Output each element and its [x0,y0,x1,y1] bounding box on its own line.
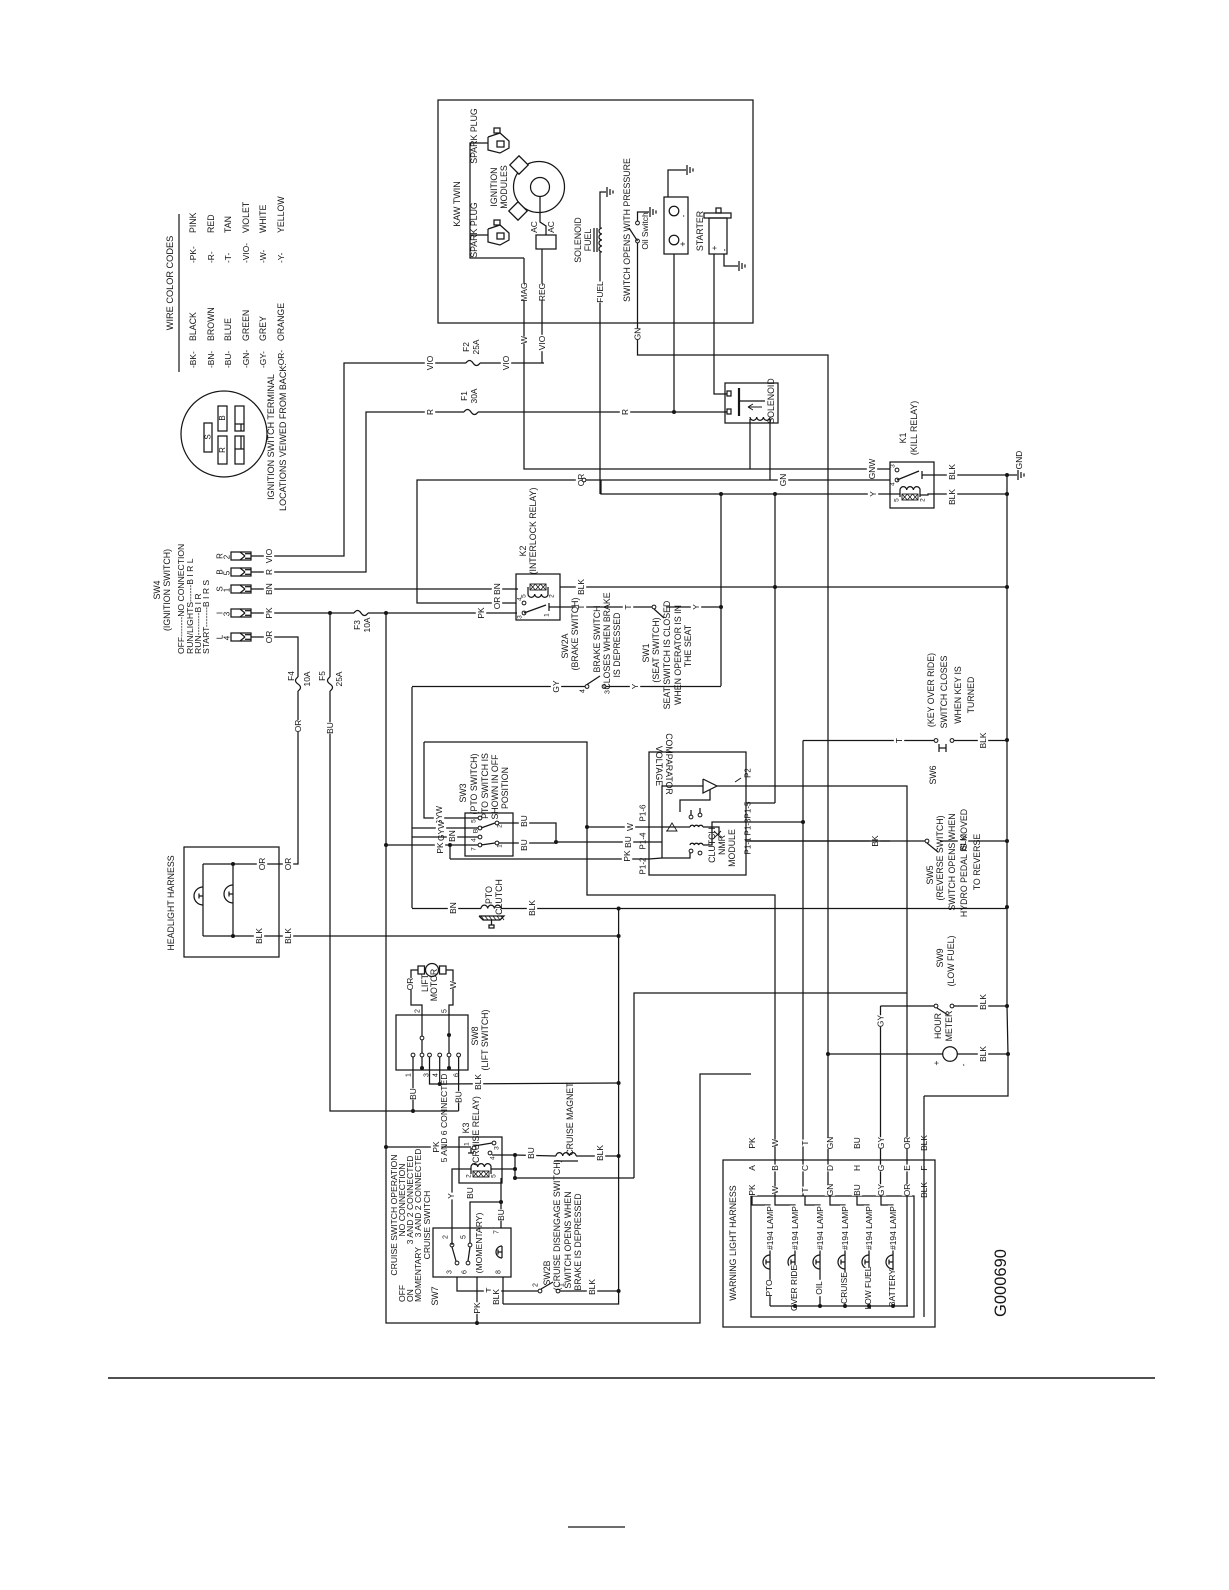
svg-text:P1-3: P1-3 [744,818,753,835]
switch SW6 key over ride [828,740,934,742]
wire flywheel to regulator [540,197,546,235]
wire lift motor W side [446,970,453,1015]
ignition module bracket [470,143,524,258]
svg-text:RED: RED [206,214,216,233]
svg-text:#194 LAMP: #194 LAMP [888,1206,898,1250]
svg-text:H: H [852,1165,862,1171]
svg-text:VOLTAGE: VOLTAGE [654,746,664,786]
svg-text:(CRUISE DISENGAGE SWITCH): (CRUISE DISENGAGE SWITCH) [552,1159,562,1290]
ground GND main [1005,473,1009,477]
starter solenoid box [725,383,778,423]
cruise magnet [556,1153,576,1156]
svg-text:1: 1 [223,587,232,592]
svg-text:K3: K3 [461,1123,471,1134]
wire P1-1 out to SW5 [746,840,890,842]
svg-text:B: B [770,1165,780,1171]
svg-text:3: 3 [890,464,897,468]
junction GN / hour meter feed [826,1052,830,1056]
svg-text:10A: 10A [302,671,312,686]
svg-text:T: T [623,604,633,609]
switch SW1 seat switch [652,605,656,609]
SW4 terminal I3 connector [231,609,251,617]
module internal diode [666,823,677,831]
wire K1 switch out BLK [927,474,1007,476]
terminal blade I [235,436,244,464]
svg-text:PK: PK [431,1141,441,1153]
svg-text:Y: Y [691,604,701,610]
svg-text:-GN-: -GN- [241,350,251,368]
svg-text:BLUE: BLUE [223,318,233,341]
svg-text:OR: OR [264,631,274,644]
wire SW8 pin3 [430,1057,440,1084]
svg-text:PINK: PINK [188,212,198,233]
SW4 terminal L4 connector [231,633,251,641]
svg-text:CLOSES WHEN BRAKE: CLOSES WHEN BRAKE [602,592,612,689]
wire BN net: SW4-S to K2 coil pin 5 [251,588,518,590]
svg-text:2: 2 [920,498,927,502]
wire GN: oil switch down to warning harness D [638,243,829,1196]
svg-text:BU: BU [496,1209,506,1221]
svg-text:P2: P2 [744,768,753,778]
svg-text:OR: OR [902,1137,912,1150]
svg-text:+: + [931,1060,941,1065]
svg-text:WIRE COLOR CODES: WIRE COLOR CODES [165,236,175,330]
wire GY/GYW/BN riser [411,687,413,908]
svg-text:R: R [425,409,435,415]
svg-text:FUEL: FUEL [595,281,605,303]
svg-text:SOLENOID: SOLENOID [766,378,776,423]
wire REG VIO: regulator down to F2 line [541,249,543,363]
warning harness wire G GY [876,1137,886,1149]
svg-text:10A: 10A [362,617,372,632]
svg-text:CRUISE: CRUISE [839,1272,849,1304]
wire lift motor OR side [411,970,422,1015]
svg-text:MODULES: MODULES [499,165,509,209]
svg-text:OR: OR [283,858,293,871]
spark plug 1 [488,128,509,153]
svg-text:BN: BN [447,830,457,842]
wire SW7 pin2 from K3 Y [451,1243,453,1245]
svg-text:-R-: -R- [206,251,216,263]
svg-text:BLK: BLK [576,579,586,595]
svg-text:S: S [204,434,213,439]
svg-text:-: - [958,1063,968,1066]
svg-text:5: 5 [491,1174,498,1178]
svg-text:BN: BN [448,902,458,914]
svg-text:SW2B: SW2B [542,1260,552,1285]
engine KAW TWIN box [438,100,753,323]
svg-text:GY: GY [876,1015,886,1028]
wire Y line: fuel line corner to K1 coil [601,480,890,494]
svg-text:PK: PK [264,607,274,619]
svg-text:F5: F5 [317,671,327,681]
svg-text:GN: GN [778,474,788,487]
solenoid plunger [738,388,740,416]
svg-text:GY: GY [876,1184,886,1197]
oil switch ground [638,212,650,221]
svg-text:GYW: GYW [436,821,446,841]
svg-text:METER: METER [944,1011,954,1042]
terminal blade B [218,406,227,431]
K1 switch contacts [895,468,899,472]
svg-text:AC: AC [529,221,539,233]
warning harness wire H BU [852,1137,862,1149]
junction PK bus / SW3 feed [384,843,388,847]
svg-text:REG: REG [537,283,547,301]
svg-text:3: 3 [447,1270,454,1274]
svg-text:SW1: SW1 [641,643,651,662]
svg-text:W: W [770,1186,780,1194]
svg-text:BLK: BLK [527,900,537,916]
warning lamp BATTERY [892,1269,894,1306]
wire solenoid coil 2 to GN line [769,419,771,480]
wire K1 coil out BLK [920,494,1007,495]
wire VIO net: SW4-R to F2 to regulator [251,363,544,556]
wire K3 coil pin2 Y to SW7 [452,1169,471,1243]
svg-text:GNW: GNW [867,459,877,480]
svg-text:BU: BU [454,1091,464,1103]
wire PK into K3 [386,1146,471,1148]
comparator output wire P2 [717,785,746,787]
wire solenoid coil 1 to GNW line [749,419,751,469]
svg-text:C: C [800,1165,810,1171]
svg-text:BU: BU [526,1147,536,1159]
svg-text:G: G [876,1165,886,1172]
svg-text:F2: F2 [461,342,471,352]
svg-text:-T-: -T- [223,253,233,263]
wire GYW riser to SW3 pin5 [424,742,478,818]
svg-text:BRAKE SWITCH: BRAKE SWITCH [592,606,602,673]
warning lamp LOW FUEL [868,1269,870,1306]
wire riser to P2 line [634,993,907,1178]
svg-text:3: 3 [223,611,232,616]
svg-text:OR: OR [405,978,415,991]
svg-text:30A: 30A [469,388,479,403]
warning harness wire D GN [825,1137,835,1149]
junction BLK / P1-5 drop [773,585,777,589]
svg-text:BLK: BLK [978,732,988,748]
svg-text:-: - [678,214,688,217]
svg-text:(IGNITION SWITCH): (IGNITION SWITCH) [162,549,172,631]
wire GYW into SW3 pin B [412,827,478,829]
wire MAG W: engine to K1 pin 3 [524,258,890,469]
svg-text:3: 3 [517,615,524,619]
warning lamp OIL [819,1269,821,1306]
svg-text:-: - [719,248,729,251]
junction Y / seat-brake net [719,492,723,496]
comparator triangle [703,779,717,793]
wire PK into SW3 pin 7 [386,844,478,846]
svg-text:CRUISE SWITCH: CRUISE SWITCH [422,1191,432,1260]
svg-text:CLUTCH: CLUTCH [494,879,504,915]
svg-text:K2: K2 [518,546,528,557]
junction PK / PK bus branch [384,611,388,615]
junction W line / P1-6 [585,825,589,829]
svg-text:#194 LAMP: #194 LAMP [790,1206,800,1250]
svg-text:F3: F3 [352,620,362,630]
svg-text:7: 7 [494,1230,501,1234]
svg-text:OIL: OIL [814,1281,824,1295]
svg-text:BLK: BLK [473,1074,483,1090]
switch SW7 box [433,1228,511,1277]
module internal wires upper [677,826,690,828]
wire BU out SW3 pin1 [499,842,556,844]
svg-text:(LOW FUEL): (LOW FUEL) [946,936,956,987]
svg-text:OR: OR [257,858,267,871]
svg-text:SW3: SW3 [458,783,468,802]
svg-text:F1: F1 [459,391,469,401]
junction battery wire / R wire [672,410,676,414]
svg-text:Y: Y [868,491,878,497]
svg-text:PTO: PTO [764,1279,774,1297]
headlight wires OR [203,863,280,865]
svg-text:TO REVERSE: TO REVERSE [972,834,982,891]
warning light harness inner box [751,1196,914,1317]
svg-text:-Y-: -Y- [276,252,286,263]
K2 switch contacts [522,601,526,605]
wire R net: SW4-B to F1 to solenoid [251,412,727,572]
warning light harness outer box [723,1160,935,1327]
svg-text:T: T [800,1140,810,1145]
comparator input wire [662,786,703,858]
svg-text:8: 8 [496,1270,503,1274]
svg-text:B: B [473,829,480,833]
module internal coil lower [690,843,703,845]
starter ground [724,254,738,266]
svg-text:BLK: BLK [587,1279,597,1295]
K2 coil [528,594,548,597]
wire cruise magnet BLK out [576,1155,619,1157]
svg-text:(INTERLOCK RELAY): (INTERLOCK RELAY) [528,488,538,575]
svg-text:E: E [902,1165,912,1171]
svg-text:OR: OR [902,1184,912,1197]
module internal wire P1-2 riser [662,853,690,858]
wire SW8 pin4 BLK [439,1057,441,1084]
svg-text:BROWN: BROWN [206,307,216,341]
wire SW7 pin3 T to SW2B [457,1277,538,1291]
wire GY: SW9 down to warning harness G [880,1006,882,1196]
svg-text:BU: BU [519,815,529,827]
svg-text:BLK: BLK [978,994,988,1010]
wire OR net: SW4-L to F4 to headlight harness [251,637,298,864]
svg-text:T: T [894,738,904,743]
svg-text:P1-4: P1-4 [639,832,648,849]
svg-text:BU: BU [519,839,529,851]
svg-text:BU: BU [852,1137,862,1149]
svg-text:1: 1 [544,613,551,617]
svg-text:SOLENOID: SOLENOID [573,217,583,262]
svg-text:SW8: SW8 [470,1026,480,1045]
svg-text:5: 5 [461,1235,468,1239]
svg-text:SW7: SW7 [430,1286,440,1305]
svg-text:W: W [770,1139,780,1147]
svg-text:4: 4 [890,482,897,486]
svg-text:HYDRO PEDAL IS MOVED: HYDRO PEDAL IS MOVED [959,809,969,917]
switch SW2A brake switch [412,686,585,688]
terminal blade L [235,406,244,431]
svg-text:WHITE: WHITE [258,205,268,233]
svg-text:BLK: BLK [978,1046,988,1062]
terminal blade R [218,436,227,464]
svg-text:Y: Y [446,1193,456,1199]
svg-text:BLK: BLK [491,1289,501,1305]
svg-text:BATTERY: BATTERY [887,1269,897,1307]
main BLK bus right side [924,475,1008,1096]
svg-text:7: 7 [471,847,478,851]
svg-text:T: T [800,1187,810,1192]
switch SW5 reverse switch [746,840,925,842]
oil pressure switch [636,221,640,225]
svg-text:-BK-: -BK- [188,351,198,368]
wire BU into P1-4 [556,841,649,843]
svg-text:2: 2 [549,594,556,598]
junction PK bus / SW7 pin6 [475,1321,479,1325]
wire K3 pin4 BU out with cruise magnet [492,1154,515,1156]
svg-text:#194 LAMP: #194 LAMP [840,1206,850,1250]
svg-text:VIO: VIO [264,548,274,563]
relay K3 box [459,1137,502,1183]
footer rule [108,1377,1155,1379]
svg-text:MODULE: MODULE [727,829,737,867]
wire P1-5 drop to BLK line [774,494,776,587]
K3 coil [471,1164,491,1167]
svg-text:SWITCH OPENS WHEN: SWITCH OPENS WHEN [563,1191,573,1288]
wire SW8 pin6 BU [458,1057,460,1111]
svg-text:BU: BU [852,1184,862,1196]
svg-text:BLK: BLK [947,489,957,505]
wire Y riser from brake switch line [720,494,722,686]
svg-text:SW9: SW9 [935,948,945,967]
svg-text:#194 LAMP: #194 LAMP [815,1206,825,1250]
junction PK / F5 branch [328,611,332,615]
svg-text:25A: 25A [334,671,344,686]
svg-text:R: R [218,447,227,453]
clutch NMR module box [649,752,746,875]
warning lamp CRUISE [844,1269,846,1306]
svg-text:BN: BN [264,583,274,595]
battery block [664,197,688,254]
svg-text:R: R [264,569,274,575]
wire battery positive to R line [673,254,675,412]
svg-text:IGNITION: IGNITION [489,167,499,206]
svg-text:1: 1 [406,1073,413,1077]
svg-text:W: W [625,823,635,831]
hour meter [943,1047,958,1062]
junction BU pins join [554,840,558,844]
module internal coil upper [690,825,703,827]
svg-text:START-------B I R S: START-------B I R S [201,580,211,654]
wire W net riser from GYW line [424,742,775,1196]
svg-text:STARTER: STARTER [695,211,705,251]
svg-text:4: 4 [490,1156,497,1160]
ignition switch terminal view circle [181,391,267,477]
svg-text:BU: BU [465,1187,475,1199]
svg-text:#194 LAMP: #194 LAMP [765,1206,775,1250]
svg-text:G000690: G000690 [992,1249,1010,1317]
SW7 pole 2-3 [450,1243,454,1247]
switch SW8 box [396,1015,468,1070]
wire SW7 pin5 BU [470,1202,501,1243]
svg-text:SWITCH CLOSES: SWITCH CLOSES [939,655,949,728]
svg-text:GN: GN [825,1184,835,1197]
magnet block 1 [510,156,528,174]
starter [704,213,731,218]
solenoid arrow [748,404,762,410]
junction clutch BLK / BLK bus [617,907,621,911]
warning harness wire F BLK [919,1135,929,1151]
svg-text:FUEL: FUEL [583,229,593,252]
svg-text:2: 2 [533,1283,540,1287]
wire P1-3 out [746,821,803,823]
svg-text:1: 1 [464,1142,471,1146]
svg-text:-BN-: -BN- [206,351,216,368]
junction PK / module P1-2 branch [448,843,452,847]
solenoid coil [750,417,770,420]
svg-text:BU: BU [408,1088,418,1100]
wire W into P1-6 [587,826,677,828]
svg-text:SW5: SW5 [925,865,935,884]
svg-text:(KILL RELAY): (KILL RELAY) [909,401,919,455]
svg-text:Oil Switch: Oil Switch [640,212,650,250]
svg-text:6: 6 [454,1073,461,1077]
svg-text:YELLOW: YELLOW [276,196,286,233]
svg-text:THE SEAT: THE SEAT [683,624,693,667]
svg-text:BN: BN [492,583,502,595]
relay K2 box [516,574,560,620]
wire SW8 pin1 BU [412,1057,414,1111]
svg-text:SW6: SW6 [928,765,938,784]
svg-text:PK: PK [435,842,445,854]
warning harness wire E OR [902,1137,912,1149]
svg-text:WHEN KEY IS: WHEN KEY IS [953,666,963,724]
svg-text:+: + [709,245,719,250]
svg-text:SW4: SW4 [152,580,162,599]
SW8 pin5 chain [448,1015,450,1033]
svg-text:4: 4 [517,597,524,601]
svg-text:BLK: BLK [254,928,264,944]
svg-text:Y: Y [630,683,640,689]
wire K2 coil BLK out to main bus [560,586,1007,588]
warning harness wire A PK [747,1137,757,1149]
svg-text:B: B [218,415,227,420]
BLK bus vertical center [503,909,619,1305]
svg-text:W: W [448,981,458,989]
riser coil return [515,1155,634,1178]
SW7 pole 5-6 [468,1243,472,1247]
svg-text:HOUR: HOUR [933,1013,943,1039]
svg-text:VIO: VIO [501,355,511,370]
K1 coil [900,487,920,490]
svg-text:PK: PK [472,1302,482,1314]
battery ground [668,170,686,197]
wire BU out SW3 pin2 [499,823,556,842]
svg-text:2: 2 [466,1174,473,1178]
svg-text:4: 4 [580,689,587,693]
junction P1-3 / T riser [801,820,805,824]
lift motor [426,964,439,977]
svg-text:PK: PK [747,1184,757,1196]
wire GN line: K2 pin4 feed across to K1 pin 4 [417,480,601,603]
regulator block [536,235,556,249]
wire BN into SW3 pin 4 [412,836,478,838]
junction headlight BLK / BLK bus [617,934,621,938]
wire P1-5 to BLK drop [746,802,775,804]
svg-text:GY: GY [551,680,561,693]
SW7 lamp [496,1246,502,1258]
warning harness wire C T [800,1140,810,1147]
comparator feedback wire [680,790,710,812]
warning lamp OVER RIDE [794,1269,796,1306]
